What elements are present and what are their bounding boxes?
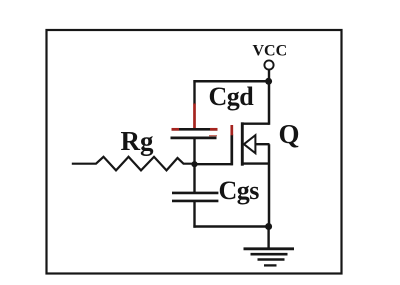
svg-text:Q: Q: [279, 119, 300, 149]
wire gate node down to Cgs: [193, 164, 195, 193]
svg-text:VCC: VCC: [253, 42, 288, 59]
wire top of Cgd loop: [193, 80, 269, 83]
capacitor Cgs top plate: [172, 192, 218, 195]
svg-text:Rg: Rg: [121, 126, 154, 156]
transistor Q1 gate bar red tip: [230, 125, 233, 135]
wire source node to ground: [267, 227, 269, 249]
wire gate vertical below Cgd: [193, 138, 195, 165]
wire Cgs bottom to bottom rail: [193, 201, 195, 228]
svg-text:Cgs: Cgs: [219, 176, 260, 205]
wire drain vertical: [268, 81, 271, 125]
capacitor Cgd top plate red right tip: [210, 128, 218, 131]
node VCC terminal circle: [264, 60, 273, 69]
svg-text:Cgd: Cgd: [209, 82, 255, 111]
transistor Q1 source stub: [242, 162, 269, 164]
capacitor Cgs bottom plate: [172, 200, 218, 203]
resistor Rg: [72, 157, 195, 171]
transistor Q1 drain stub: [242, 122, 269, 124]
capacitor Cgd bottom plate: [171, 137, 217, 140]
wire VCC circle to junction: [268, 70, 270, 82]
transistor Q1 channel bar: [241, 122, 244, 165]
junction gate node dot: [191, 161, 197, 167]
transistor Q1 arrow wire: [255, 143, 269, 145]
capacitor Cgd bottom plate faint red mark: [209, 135, 217, 137]
junction source node dot: [265, 223, 272, 230]
wire bottom rail to source node: [193, 225, 269, 227]
ground symbol: [244, 249, 295, 266]
transistor Q1 source arrow: [244, 135, 256, 153]
capacitor Cgd top plate red left tip: [172, 128, 180, 131]
capacitor Cgd top plate: [172, 128, 218, 131]
wire source vertical down to source node: [268, 144, 271, 226]
wire gate lead to transistor: [195, 163, 233, 165]
wire red lead into Cgd top plate: [193, 104, 196, 130]
junction drain node dot: [265, 78, 272, 85]
transistor Q1 gate bar: [230, 135, 233, 166]
wire left vertical of Cgd loop: [193, 80, 195, 104]
